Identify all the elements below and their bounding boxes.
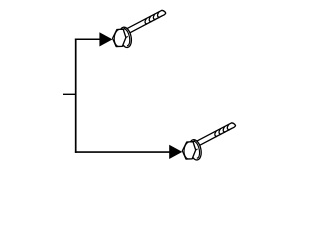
callout left tick (63, 93, 76, 95)
bolt 2 (bottom) (182, 123, 235, 161)
bolt 2 flange washer (188, 139, 203, 162)
bolt 1 hex side facets (122, 28, 127, 46)
arrow to bolt 1 (99, 32, 112, 46)
bolt 1 shank (127, 10, 166, 33)
bolt 2 hex side facets (192, 141, 197, 159)
bolt 2 flange rim edge (192, 141, 200, 158)
bolt 1 thread crests (145, 12, 160, 24)
callout bottom horizontal wire (75, 151, 171, 153)
bolt 1 flange rim edge (122, 29, 130, 46)
bolt 2 shank (197, 123, 236, 146)
bolt 1 flange washer (118, 26, 133, 49)
callout bracket vertical line (75, 38, 77, 152)
bolt 2 thread crests (215, 124, 230, 136)
bolt 1 hex head (113, 29, 126, 46)
arrow to bolt 2 (169, 145, 182, 159)
bolt 2 hex head (182, 142, 195, 159)
bolt 1 head chamfer circle (114, 30, 119, 47)
callout top horizontal wire (75, 38, 101, 40)
bolt 2 head chamfer circle (184, 142, 189, 159)
bolt 1 (top) (113, 10, 166, 48)
